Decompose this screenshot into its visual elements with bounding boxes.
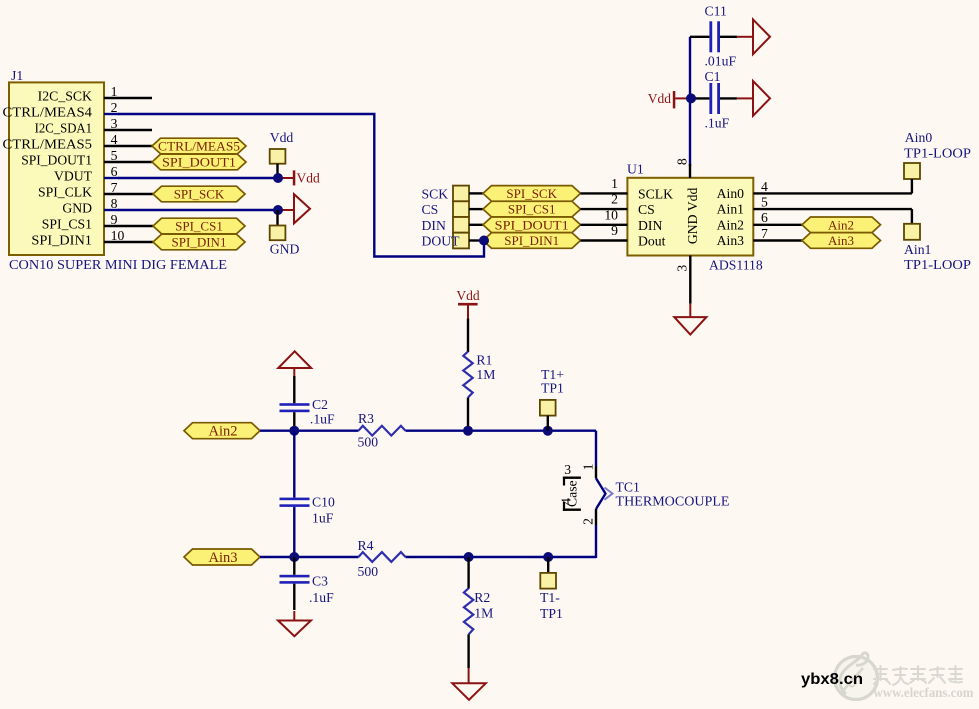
svg-text:8: 8 bbox=[675, 158, 690, 165]
testpoint square T1+ TP1 bbox=[540, 367, 564, 431]
svg-text:Ain1: Ain1 bbox=[904, 242, 932, 257]
svg-text:T1-: T1- bbox=[540, 590, 560, 605]
svg-text:6: 6 bbox=[111, 164, 118, 179]
svg-text:1M: 1M bbox=[474, 606, 493, 621]
power symbol Vdd bar at C1 bbox=[648, 91, 687, 108]
power symbol Vdd bar at J1 pin 6 bbox=[280, 170, 320, 185]
svg-text:10: 10 bbox=[604, 207, 618, 222]
svg-text:3: 3 bbox=[564, 462, 571, 477]
svg-text:2: 2 bbox=[111, 100, 118, 115]
svg-text:Ain2: Ain2 bbox=[717, 217, 745, 232]
wire Ain3 row left bbox=[260, 556, 359, 558]
J1 pin 9 SPI_CS1 bbox=[42, 212, 153, 232]
capacitor C11 bbox=[690, 4, 753, 69]
testpoint square Vdd bbox=[270, 130, 294, 178]
wire Ain2 row right bbox=[406, 430, 597, 432]
svg-text:SPI_DIN1: SPI_DIN1 bbox=[504, 233, 559, 248]
node junction C3 row2 bbox=[289, 552, 299, 562]
svg-text:9: 9 bbox=[111, 212, 118, 227]
svg-text:SCLK: SCLK bbox=[638, 186, 673, 201]
svg-text:9: 9 bbox=[611, 223, 618, 238]
port SPI_CS1 at U1 bbox=[483, 201, 581, 217]
svg-text:THERMOCOUPLE: THERMOCOUPLE bbox=[616, 494, 730, 509]
power symbol GND arrow below U1 bbox=[674, 304, 706, 335]
J1 pin 1 I2C_SCK bbox=[38, 84, 152, 104]
svg-text:R4: R4 bbox=[358, 538, 374, 553]
svg-text:1M: 1M bbox=[476, 367, 495, 382]
svg-text:3: 3 bbox=[675, 265, 690, 272]
svg-text:8: 8 bbox=[111, 196, 118, 211]
wire GND net bbox=[118, 209, 278, 211]
wire Vdd vertical to U1 pin 8 bbox=[689, 37, 691, 166]
wire Ain3 row right bbox=[406, 556, 597, 558]
svg-text:CTRL/MEAS4: CTRL/MEAS4 bbox=[3, 105, 93, 120]
watermark logo circle bbox=[835, 653, 878, 700]
svg-text:DIN: DIN bbox=[422, 218, 446, 233]
power symbol Vdd bar above R1 bbox=[456, 288, 479, 318]
J1 pin 8 GND bbox=[62, 196, 119, 216]
svg-text:SCK: SCK bbox=[422, 186, 449, 201]
svg-text:R2: R2 bbox=[474, 590, 490, 605]
svg-text:1uF: 1uF bbox=[312, 511, 334, 526]
svg-text:2: 2 bbox=[611, 192, 618, 207]
port SPI_DOUT1 bbox=[152, 154, 246, 170]
svg-text:R3: R3 bbox=[358, 411, 374, 426]
svg-text:DIN: DIN bbox=[638, 218, 662, 233]
node junction SPI_DIN1 bbox=[479, 236, 489, 246]
svg-text:ADS1118: ADS1118 bbox=[709, 258, 763, 273]
node junction GND bbox=[273, 205, 283, 215]
svg-text:C10: C10 bbox=[312, 495, 335, 510]
svg-text:Vdd: Vdd bbox=[270, 130, 294, 145]
IC U1 ADS1118 bbox=[627, 162, 763, 273]
U1 pin 7 Ain3 bbox=[753, 226, 802, 241]
U1 pin 10 DIN bbox=[581, 207, 628, 224]
svg-text:1: 1 bbox=[111, 84, 118, 99]
svg-text:SPI_CS1: SPI_CS1 bbox=[175, 219, 223, 234]
wire DOUT square to port bbox=[469, 239, 483, 241]
svg-text:SPI_DOUT1: SPI_DOUT1 bbox=[21, 153, 92, 168]
wire VDUT net bbox=[118, 177, 278, 179]
U1 pin 1 SCLK bbox=[581, 176, 628, 193]
port SPI_SCK at U1 bbox=[483, 186, 581, 202]
svg-text:SPI_CS1: SPI_CS1 bbox=[42, 217, 92, 232]
svg-text:SPI_DOUT1: SPI_DOUT1 bbox=[495, 217, 569, 232]
port Ain2 at U1 bbox=[802, 217, 881, 233]
J1 pin 5 SPI_DOUT1 bbox=[21, 148, 152, 168]
port Ain3 at U1 bbox=[802, 233, 881, 249]
wire SCK square to port bbox=[469, 192, 483, 194]
svg-text:GND Vdd: GND Vdd bbox=[685, 188, 700, 245]
svg-text:Case: Case bbox=[564, 480, 579, 507]
node junction R2 row2 bbox=[464, 552, 474, 562]
svg-text:GND: GND bbox=[62, 201, 92, 216]
port CTRL/MEAS5 bbox=[152, 138, 246, 154]
capacitor C10 1uF bbox=[280, 431, 335, 557]
svg-text:TP1: TP1 bbox=[540, 606, 563, 621]
J1 pin 10 SPI_DIN1 bbox=[31, 228, 153, 248]
svg-text:500: 500 bbox=[358, 435, 379, 450]
svg-text:CS: CS bbox=[422, 202, 439, 217]
testpoint square Ain0 TP1-LOOP bbox=[904, 130, 971, 193]
svg-text:J1: J1 bbox=[11, 68, 23, 83]
svg-text:SPI_CLK: SPI_CLK bbox=[38, 185, 92, 200]
svg-text:.01uF: .01uF bbox=[705, 54, 737, 69]
resistor R1 1M bbox=[463, 318, 495, 430]
svg-text:SPI_DOUT1: SPI_DOUT1 bbox=[162, 155, 236, 170]
svg-text:GND: GND bbox=[270, 242, 300, 257]
svg-text:U1: U1 bbox=[627, 162, 644, 177]
connector J1 bbox=[9, 68, 227, 272]
svg-text:3: 3 bbox=[111, 116, 118, 131]
thermocouple TC1 bbox=[559, 462, 730, 525]
port SPI_DIN1 at U1 bbox=[483, 233, 581, 249]
svg-text:5: 5 bbox=[761, 195, 768, 210]
svg-text:Ain0: Ain0 bbox=[717, 186, 745, 201]
wire TC1 left column bottom bbox=[595, 525, 597, 558]
svg-text:Ain3: Ain3 bbox=[717, 233, 745, 248]
node junction T1- row2 bbox=[543, 552, 553, 562]
power symbol GND arrow at C11 bbox=[753, 19, 770, 54]
svg-text:Vdd: Vdd bbox=[297, 171, 320, 186]
wire net CTRL/MEAS4 from J1 pin 2 to SPI_DIN1 node bbox=[118, 114, 484, 257]
svg-text:1: 1 bbox=[611, 176, 618, 191]
capacitor C3 .1uF bbox=[280, 557, 335, 610]
wire CS square to port bbox=[469, 208, 483, 210]
port SPI_SCK bbox=[153, 186, 245, 202]
wire TC1 left column top bbox=[595, 431, 597, 466]
svg-text:SPI_SCK: SPI_SCK bbox=[506, 186, 557, 201]
node junction T1+ row1 bbox=[543, 426, 553, 436]
svg-text:DOUT: DOUT bbox=[422, 234, 461, 249]
svg-text:1: 1 bbox=[581, 463, 596, 470]
testpoint square Ain1 TP1-LOOP bbox=[904, 209, 971, 272]
port SPI_DIN1 bbox=[153, 234, 245, 250]
power symbol GND arrow below C3 bbox=[278, 611, 311, 636]
svg-text:SPI_CS1: SPI_CS1 bbox=[508, 202, 556, 217]
port Ain2 bottom bbox=[184, 423, 260, 440]
testpoint squares SCK CS DIN DOUT bbox=[422, 186, 470, 249]
watermark chinese characters bbox=[874, 666, 962, 685]
U1 pin 6 Ain2 bbox=[753, 210, 802, 225]
svg-text:C3: C3 bbox=[312, 574, 328, 589]
svg-text:2: 2 bbox=[581, 518, 596, 525]
J1 pin 6 VDUT bbox=[54, 164, 119, 184]
resistor R2 1M bbox=[464, 557, 493, 668]
testpoint square GND bbox=[270, 210, 300, 257]
svg-text:CON10 SUPER MINI DIG FEMALE: CON10 SUPER MINI DIG FEMALE bbox=[9, 257, 227, 272]
svg-text:.1uF: .1uF bbox=[705, 116, 730, 131]
resistor R3 500 bbox=[358, 411, 406, 450]
svg-text:Ain3: Ain3 bbox=[828, 233, 854, 248]
svg-text:Ain2: Ain2 bbox=[209, 424, 238, 440]
port Ain3 bottom bbox=[184, 549, 260, 566]
U1 pin 2 CS bbox=[581, 192, 628, 209]
power symbol GND arrow below R2 bbox=[452, 668, 486, 700]
svg-text:TP1-LOOP: TP1-LOOP bbox=[904, 257, 971, 272]
U1 pin 5 Ain1 bbox=[753, 195, 912, 210]
svg-text:TC1: TC1 bbox=[616, 480, 640, 495]
port SPI_DOUT1 at U1 bbox=[483, 217, 581, 233]
svg-text:SPI_SCK: SPI_SCK bbox=[174, 187, 225, 202]
svg-text:4: 4 bbox=[111, 132, 118, 147]
J1 pin 2 CTRL/MEAS4 bbox=[3, 100, 120, 120]
svg-text:TP1: TP1 bbox=[541, 381, 564, 396]
J1 pin 7 SPI_CLK bbox=[38, 180, 153, 200]
J1 pin 4 CTRL/MEAS5 bbox=[3, 132, 153, 152]
svg-text:Vdd: Vdd bbox=[456, 288, 479, 303]
svg-text:CTRL/MEAS5: CTRL/MEAS5 bbox=[3, 137, 93, 152]
svg-text:I2C_SDA1: I2C_SDA1 bbox=[35, 121, 93, 136]
node junction C2 row1 bbox=[289, 426, 299, 436]
svg-text:10: 10 bbox=[111, 228, 125, 243]
svg-text:500: 500 bbox=[358, 564, 379, 579]
svg-text:Ain3: Ain3 bbox=[209, 550, 238, 566]
svg-text:C1: C1 bbox=[705, 69, 721, 84]
power symbol GND arrow at C1 bbox=[753, 81, 770, 116]
svg-text:CS: CS bbox=[638, 202, 655, 217]
U1 pin 3 GND bottom bbox=[675, 256, 691, 304]
svg-text:5: 5 bbox=[111, 148, 118, 163]
svg-text:Dout: Dout bbox=[638, 234, 666, 249]
U1 pin 4 Ain0 bbox=[753, 179, 912, 194]
J1 pin 3 I2C_SDA1 bbox=[35, 116, 152, 136]
svg-text:6: 6 bbox=[761, 210, 768, 225]
svg-text:Ain2: Ain2 bbox=[828, 217, 854, 232]
svg-text:ybx8.cn: ybx8.cn bbox=[801, 671, 863, 688]
svg-text:VDUT: VDUT bbox=[54, 169, 93, 184]
port SPI_CS1 bbox=[153, 218, 245, 234]
U1 pin 9 Dout bbox=[581, 223, 628, 240]
svg-text:4: 4 bbox=[761, 179, 768, 194]
svg-text:7: 7 bbox=[111, 180, 118, 195]
resistor R4 500 bbox=[358, 538, 406, 579]
power symbol GND arrow above C2 bbox=[278, 351, 311, 376]
capacitor C2 .1uF bbox=[280, 376, 336, 431]
svg-text:CTRL/MEAS5: CTRL/MEAS5 bbox=[158, 139, 240, 154]
svg-text:R1: R1 bbox=[476, 353, 492, 368]
svg-text:TP1-LOOP: TP1-LOOP bbox=[904, 146, 971, 161]
svg-text:SPI_DIN1: SPI_DIN1 bbox=[172, 235, 227, 250]
svg-text:Vdd: Vdd bbox=[648, 91, 671, 106]
node junction R1 row1 bbox=[463, 426, 473, 436]
testpoint square T1- TP1 bbox=[540, 557, 563, 621]
node junction VDUT bbox=[273, 173, 283, 183]
power symbol GND arrow at J1 pin 8 bbox=[280, 194, 310, 223]
svg-text:I2C_SCK: I2C_SCK bbox=[38, 89, 92, 104]
wire DIN square to port bbox=[469, 224, 483, 226]
svg-text:www.elecfans.com: www.elecfans.com bbox=[874, 685, 975, 700]
svg-text:.1uF: .1uF bbox=[310, 412, 335, 427]
svg-text:Ain1: Ain1 bbox=[717, 202, 745, 217]
svg-text:C2: C2 bbox=[312, 397, 328, 412]
node junction Vdd at C1 bbox=[686, 93, 696, 103]
wire Ain2 row left bbox=[260, 430, 359, 432]
svg-text:.1uF: .1uF bbox=[309, 590, 334, 605]
svg-text:SPI_DIN1: SPI_DIN1 bbox=[31, 233, 92, 248]
capacitor C1 bbox=[691, 69, 753, 131]
svg-text:Ain0: Ain0 bbox=[905, 130, 933, 145]
U1 pin 8 Vdd top bbox=[675, 158, 690, 178]
svg-text:7: 7 bbox=[761, 226, 768, 241]
svg-text:C11: C11 bbox=[705, 4, 727, 19]
